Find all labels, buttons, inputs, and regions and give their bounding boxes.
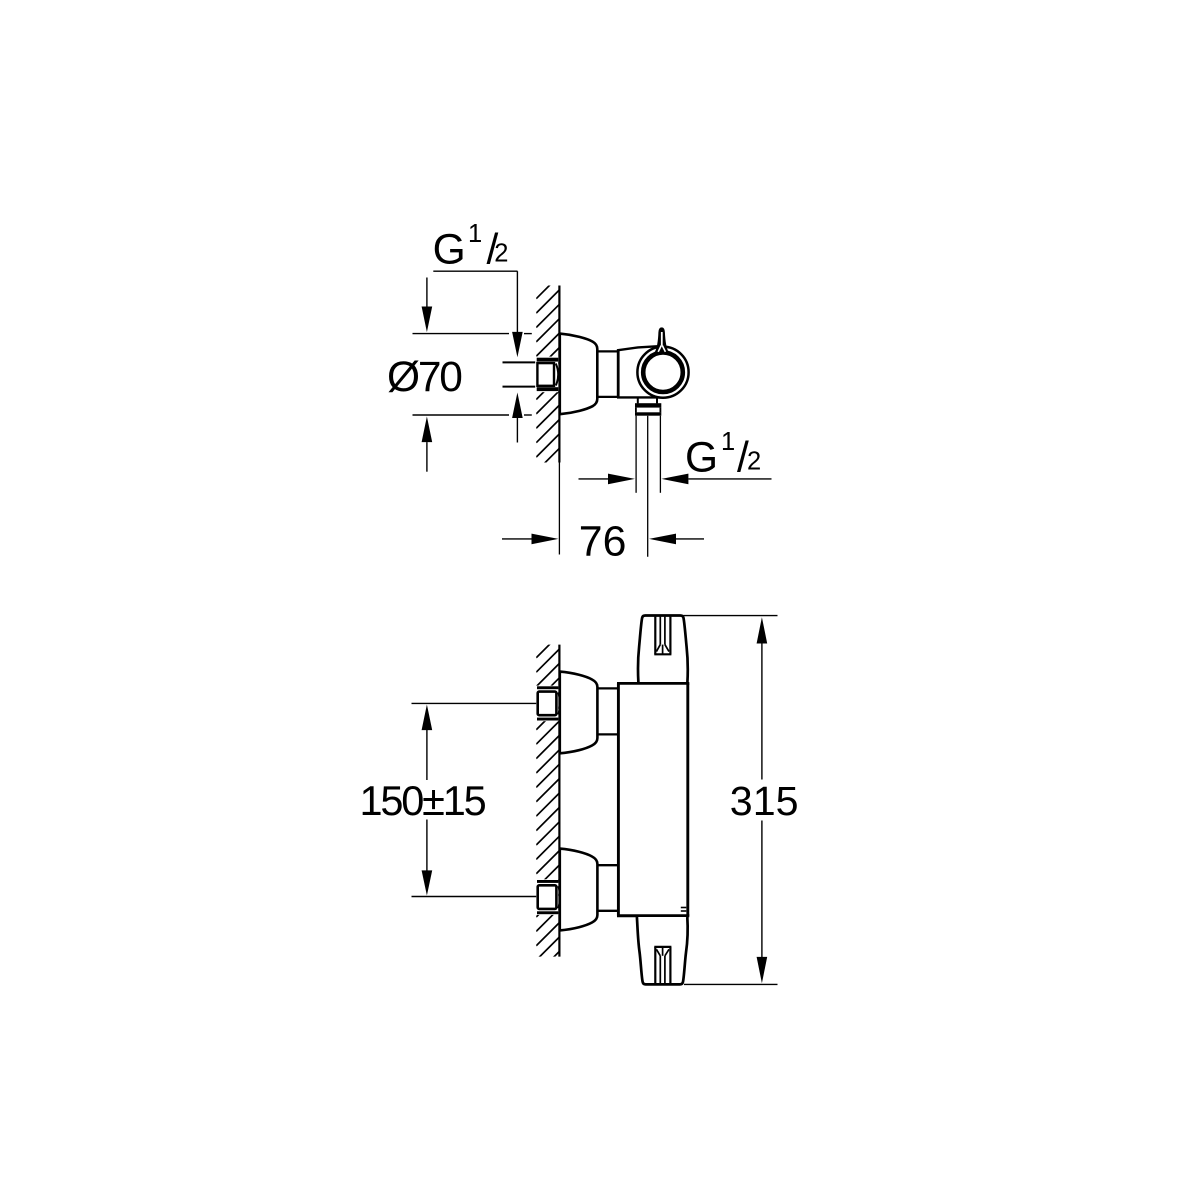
escutcheon (side view) <box>560 334 598 415</box>
wall hatching (front view) <box>536 635 559 1004</box>
svg-text:2: 2 <box>747 447 761 475</box>
union nut arc (side view) <box>556 364 558 386</box>
svg-text:150±15: 150±15 <box>360 777 486 824</box>
dimension lines for diameter 70 <box>413 334 532 415</box>
dimension 315 line and arrows <box>757 617 768 643</box>
G1/2 outlet dim arrows <box>579 478 609 480</box>
valve neck (side view) <box>598 351 619 397</box>
label G 1/2 (inlet thread) <box>433 226 499 273</box>
svg-text:2: 2 <box>494 239 508 267</box>
white backing behind union fitting (side view) <box>535 357 558 393</box>
handle outer circle (side view) <box>637 347 688 398</box>
G1/2 leader line and down arrow <box>516 271 518 334</box>
top union nut arc <box>558 693 560 715</box>
bottom flow knob (front view) <box>637 917 688 984</box>
top escutcheon (front view) <box>560 672 598 754</box>
temperature lever (teardrop) <box>654 327 669 353</box>
inlet pipe stub in wall <box>503 362 537 386</box>
dimension 76 <box>502 538 532 540</box>
svg-text:1: 1 <box>468 220 482 248</box>
svg-text:Ø70: Ø70 <box>387 354 461 401</box>
svg-text:G: G <box>433 226 466 273</box>
diameter70 top arrow <box>426 278 428 308</box>
top temperature knob (front view) <box>638 616 688 683</box>
white backing bottom union <box>535 879 558 915</box>
label G 1/2 (outlet thread) <box>685 434 749 481</box>
svg-text:76: 76 <box>579 518 627 566</box>
top union flange bars <box>537 686 558 689</box>
outlet axis line <box>647 416 649 557</box>
union flange bars (side view) <box>537 358 559 362</box>
square union fitting (side view) <box>537 363 554 386</box>
valve body (front view) <box>617 683 689 916</box>
bottom knob grip mark <box>654 947 671 983</box>
dimension 150 +/- 15 extension lines <box>412 703 537 896</box>
svg-text:1: 1 <box>721 428 735 456</box>
top square union fitting <box>538 692 557 716</box>
top valve neck lines <box>598 688 619 734</box>
shower outlet mark on body edge <box>681 908 687 912</box>
dimension 315 extension lines <box>684 616 778 985</box>
bottom valve neck lines <box>598 865 619 911</box>
white backing top union <box>535 686 558 722</box>
bottom square union fitting <box>538 885 557 909</box>
wall hatching (side view) <box>536 276 559 501</box>
G1/2 up arrow at flange bottom <box>512 393 523 419</box>
svg-text:315: 315 <box>730 778 799 824</box>
valve body (side view) <box>617 349 620 398</box>
dimension 150 line and arrows <box>422 705 433 731</box>
bottom union nut arc <box>558 886 560 908</box>
outlet thread extension lines <box>636 416 660 493</box>
diameter70 bottom arrow <box>422 417 433 443</box>
top knob grip mark <box>654 617 671 655</box>
svg-text:G: G <box>685 434 718 481</box>
bottom union flange bars <box>537 880 558 883</box>
bottom escutcheon (front view) <box>560 849 598 931</box>
wall surface extension line down to 76 dim <box>558 463 560 555</box>
wall surface line (front view) <box>558 645 560 957</box>
wall surface line (side view) <box>558 286 560 463</box>
lever inner white slot <box>661 332 663 346</box>
handle inner ring <box>643 352 683 392</box>
outlet fitting below handle <box>638 398 657 404</box>
